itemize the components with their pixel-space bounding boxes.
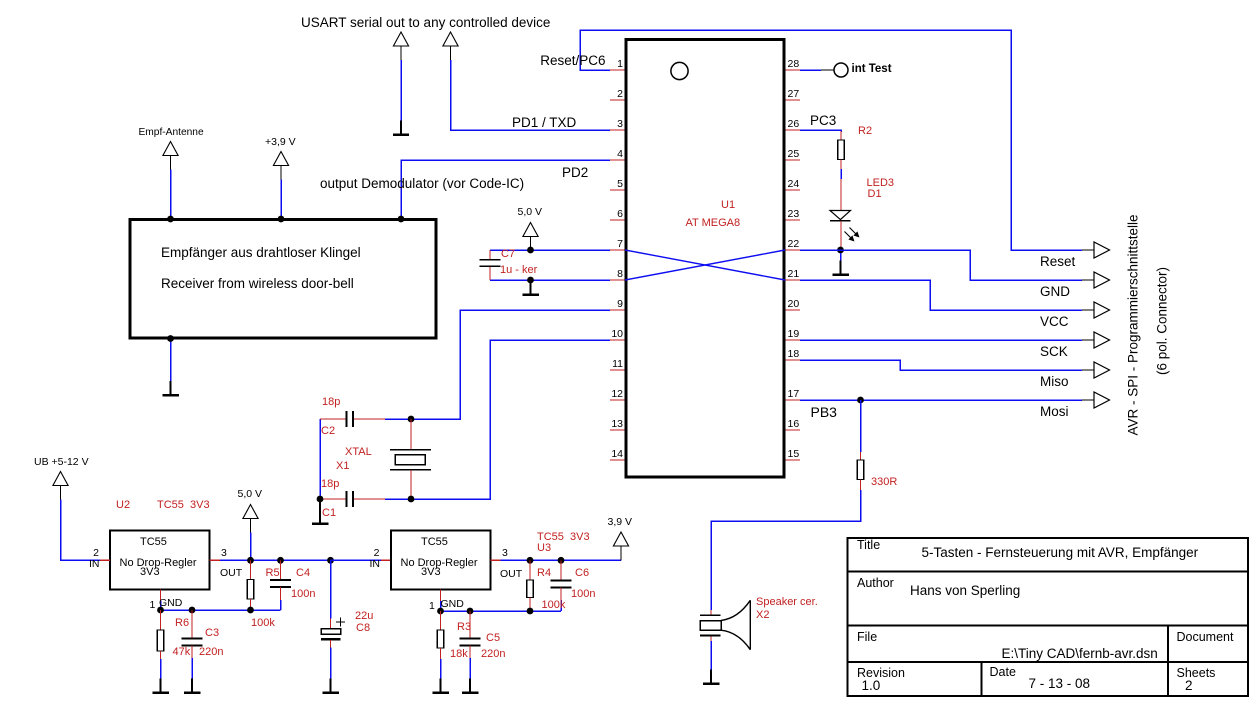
U1 pin 3 stub: [610, 129, 625, 131]
junction rail/C4: [277, 557, 284, 564]
junction 5V/pin7 row: [527, 247, 534, 254]
wire U3 gnd row: [441, 610, 562, 612]
capacitor C7 value: [500, 264, 537, 276]
connector lead Miso: [1082, 369, 1094, 371]
U3 pin1 labels: [429, 600, 435, 612]
U2 pin2 stub: [100, 559, 110, 561]
capacitor C6: [551, 581, 572, 588]
ground below LED: [832, 261, 849, 275]
ground below C8: [322, 679, 339, 693]
capacitor C4 label: [296, 567, 310, 579]
wire pin8-to-pin22 diagonal: [625, 250, 785, 280]
capacitor C3: [182, 639, 203, 646]
resistor R5 value: [251, 617, 275, 629]
connector arrow VCC: [1094, 302, 1110, 318]
U1 pin 23 number: [788, 208, 800, 220]
U1 pin 26 stub: [786, 129, 801, 131]
junction rail/C6: [558, 557, 565, 564]
ground below USART stub: [393, 121, 409, 135]
resistor R2 top stub: [840, 131, 842, 140]
U1 pin 23 stub: [786, 219, 801, 221]
int Test label: [852, 63, 892, 75]
title block Revision label: [857, 666, 905, 680]
LED D1 labels: [867, 177, 895, 189]
wire pin7-to-pin21 diagonal: [625, 250, 785, 280]
wire antenna to box: [170, 170, 172, 220]
crystal X1 top plate: [390, 449, 431, 451]
wire U3 out rail: [501, 559, 622, 561]
resistor R3 bottom stub: [440, 648, 442, 659]
capacitor C1 left stub: [320, 498, 346, 500]
resistor R3 value: [450, 648, 468, 660]
title block file text: [1002, 646, 1158, 661]
capacitor C7 label: [501, 248, 515, 260]
wire 330R to speaker: [711, 490, 861, 610]
resistor R3: [437, 630, 444, 648]
wire pin18 to Miso arrow: [800, 360, 1082, 370]
connector lead Mosi: [1082, 399, 1094, 401]
capacitor C1 value: [321, 478, 339, 490]
U1 pin 1 stub: [610, 69, 625, 71]
junction rail/R5: [247, 557, 254, 564]
U1 pin 9 stub: [610, 309, 625, 311]
regulator U2 refdes: [116, 499, 130, 511]
regulator U2 body: [110, 531, 210, 590]
wire UB to U2 IN: [61, 500, 101, 561]
wire R6 to ground: [160, 659, 162, 679]
speaker X2 body: [700, 621, 721, 631]
resistor 330R bottom stub: [860, 480, 862, 491]
capacitor C6 bottom stub: [560, 588, 562, 601]
LED D1 cathode bar: [830, 220, 851, 222]
capacitor C5 label: [486, 632, 500, 644]
IC U1 value label: [686, 217, 741, 229]
wire C6 to gnd row: [560, 600, 562, 611]
regulator U3 body: [391, 531, 491, 590]
ground below R6: [152, 679, 169, 693]
U1 pin 28 stub: [786, 69, 801, 71]
wire 5V to rail: [250, 533, 252, 561]
capacitor C8 top stub: [330, 619, 332, 629]
wire C5 to ground: [469, 658, 471, 679]
resistor R2 bottom stub: [840, 160, 842, 170]
junction box bottom: [167, 335, 174, 342]
junction rail/R4: [527, 557, 534, 564]
regulator U3 text: [421, 536, 448, 548]
U2 pin3 stub: [210, 559, 221, 561]
ground below receiver box: [162, 381, 179, 395]
U1 pin 12 number: [611, 388, 623, 400]
connector arrow GND: [1094, 272, 1110, 288]
U1 pin 10 number: [611, 328, 623, 340]
U2 pin3 labels: [221, 547, 227, 559]
wire rail to C8: [330, 560, 332, 618]
label PB3: [811, 404, 837, 420]
wire U3 GND stub to row: [440, 601, 442, 611]
resistor R6 bottom stub: [160, 651, 162, 659]
U1 pin 5 number: [617, 178, 623, 190]
power 5,0V symbol (pin7): [523, 223, 538, 251]
power 3,9V label: [608, 516, 633, 528]
ground below pin8 row: [522, 280, 539, 295]
capacitor C6 top stub: [560, 560, 562, 580]
regulator U2 type label: [157, 499, 210, 511]
U1 pin 22 stub: [786, 249, 801, 251]
power +3,9V symbol: [273, 152, 288, 180]
capacitor C8 label: [356, 622, 370, 634]
IC U1 refdes label: [721, 199, 735, 211]
ground below speaker: [703, 670, 720, 684]
wire pin17 to Mosi arrow: [800, 399, 1082, 401]
wire xtal top row to pin9: [385, 310, 610, 419]
U1 pin 8 stub: [610, 279, 625, 281]
net label VCC: [1040, 314, 1069, 329]
wire R2 to LED: [840, 169, 842, 179]
title block revision text: [862, 678, 881, 693]
junction C1/ground: [317, 496, 324, 503]
net label Reset: [1040, 254, 1075, 269]
U1 pin 8 number: [617, 268, 623, 280]
U1 pin 6 stub: [610, 219, 625, 221]
ground below C1: [312, 499, 329, 524]
USART arrow symbol (TXD): [443, 32, 458, 60]
wire U2 out rail: [220, 559, 381, 561]
title block sheets text: [1185, 678, 1193, 693]
ground below C5: [462, 679, 479, 693]
capacitor C3 bottom stub: [191, 646, 193, 659]
capacitor C4 value: [291, 588, 315, 600]
speaker X2 bottom plate: [700, 634, 721, 636]
capacitor C5 bottom stub: [469, 646, 471, 659]
wire pin21 net to VCC arrow: [800, 280, 1082, 310]
U2 pin1 GND stub: [160, 590, 162, 602]
connector lead VCC: [1082, 309, 1094, 311]
capacitor C1 label: [322, 507, 336, 519]
U1 pin 25 number: [788, 148, 800, 160]
junction xtal top: [408, 416, 415, 423]
resistor R4 label: [537, 567, 551, 579]
U1 pin 15 stub: [786, 459, 801, 461]
IC U1 pin-1 marker circle: [671, 62, 688, 79]
connector arrow Miso: [1094, 362, 1110, 378]
power 5,0V label (U2): [238, 488, 263, 500]
junction +3,9V/box: [278, 216, 285, 223]
U1 pin 27 number: [788, 88, 800, 100]
note output demodulator: [320, 176, 524, 191]
connector lead GND: [1082, 279, 1094, 281]
junction gnd row/C3: [189, 607, 196, 614]
resistor R3 top stub: [440, 611, 442, 630]
U1 pin 2 number: [617, 88, 623, 100]
junction LED/GND-net: [837, 247, 844, 254]
U3 pin3 labels: [502, 547, 508, 559]
capacitor C6 label: [575, 567, 589, 579]
wire C3 to ground: [191, 658, 193, 679]
U1 pin 17 number: [788, 388, 800, 400]
junction pin17/330R: [857, 397, 864, 404]
wire pin28: [800, 69, 821, 71]
junction xtal bottom: [408, 496, 415, 503]
capacitor C5 value: [481, 648, 505, 660]
U1 pin 4 number: [617, 148, 623, 160]
resistor R5: [247, 580, 254, 600]
title block Sheets label: [1177, 666, 1216, 680]
regulator U3 type label: [537, 531, 590, 543]
U1 pin 24 number: [788, 178, 800, 190]
U1 pin 22 number: [788, 238, 800, 250]
resistor R6: [157, 630, 164, 651]
wire speaker to ground: [710, 641, 712, 670]
crystal X1 label: [345, 446, 372, 458]
connector subtitle vertical: [1154, 267, 1169, 375]
ground below C3: [184, 679, 201, 693]
title block frame: [848, 538, 1249, 696]
title block Date label: [990, 665, 1016, 679]
wire pin17 junction down: [860, 400, 862, 452]
junction rail/C8: [327, 557, 334, 564]
label PD2: [562, 165, 588, 180]
capacitor C2: [347, 411, 354, 427]
U1 pin 16 stub: [786, 429, 801, 431]
U1 pin 21 number: [788, 268, 800, 280]
junction antenna/box: [167, 216, 174, 223]
receiver box text 2: [161, 276, 354, 291]
capacitor C2 left stub: [320, 418, 346, 420]
wire C8 to ground: [330, 648, 332, 679]
wire +3,9V to box: [280, 180, 282, 220]
ground below R3: [432, 679, 449, 693]
U2 pin1 labels: [150, 599, 156, 611]
label PC3: [810, 113, 836, 128]
title block Document label: [1177, 630, 1234, 644]
U1 pin 17 stub: [786, 399, 801, 401]
U1 pin 13 stub: [610, 429, 625, 431]
wire C4 to gnd row: [280, 600, 282, 610]
wire pin3 TXD: [451, 60, 611, 130]
title block Author label: [857, 576, 894, 590]
resistor R5 label: [266, 567, 280, 579]
U1 pin 13 number: [611, 418, 623, 430]
speaker X2 label: [756, 596, 818, 608]
wire rail C8 to U3 IN: [331, 559, 382, 561]
capacitor C2 right stub: [354, 418, 386, 420]
U1 pin 18 number: [788, 348, 800, 360]
power UB symbol: [53, 472, 68, 500]
U3 pin1 GND stub: [440, 590, 442, 602]
resistor R6 top stub: [160, 610, 162, 630]
capacitor C4 bottom stub: [280, 587, 282, 600]
wire below LED junction: [840, 253, 842, 261]
U3 pin2 stub: [381, 559, 391, 561]
speaker X2 top plate: [700, 614, 721, 616]
junction gnd row/C5: [467, 608, 474, 615]
U1 pin 19 stub: [786, 339, 801, 341]
junction U3 gnd/R3 row: [437, 608, 444, 615]
note USART: [301, 15, 550, 30]
title block date text: [1029, 676, 1091, 691]
wire pin1 Reset to connector: [580, 30, 1082, 250]
U1 pin 5 stub: [610, 189, 625, 191]
int Test lead: [821, 69, 834, 71]
capacitor C6 value: [571, 588, 595, 600]
int Test terminal circle: [834, 63, 848, 77]
capacitor C7 top stub: [489, 250, 491, 260]
resistor 330R top stub: [860, 452, 862, 460]
resistor R3 label: [457, 621, 471, 633]
junction gnd/pin8 row: [527, 277, 534, 284]
capacitor C8 bottom stub: [330, 640, 332, 648]
power 5,0V symbol (U2): [243, 505, 258, 533]
capacitor C8 top plate: [321, 629, 341, 635]
regulator U2 text: [140, 536, 167, 548]
receiver box text 1: [161, 245, 361, 260]
capacitor C8 plus sign: [336, 618, 345, 627]
U1 pin 19 number: [788, 328, 800, 340]
U2 pin2 labels: [93, 547, 99, 559]
capacitor C4: [270, 580, 291, 587]
resistor R4 top stub: [529, 560, 531, 580]
wire pin19 to SCK arrow: [800, 339, 1082, 341]
connector lead Reset: [1082, 249, 1094, 251]
U1 pin 7 number: [617, 238, 623, 250]
U1 pin 14 stub: [610, 459, 625, 461]
U1 pin 4 stub: [610, 159, 625, 161]
U1 pin 9 number: [617, 298, 623, 310]
U1 pin 18 stub: [786, 359, 801, 361]
wire USART stub: [400, 60, 402, 121]
U3 pin2 labels: [374, 547, 380, 559]
capacitor C5 top stub: [469, 611, 471, 639]
label Reset/PC6: [540, 53, 605, 68]
connector arrow Mosi: [1094, 392, 1110, 408]
capacitor C2 label: [321, 425, 335, 437]
title block File label: [857, 630, 877, 644]
U1 pin 1 number: [617, 58, 623, 70]
resistor R4: [527, 580, 534, 598]
U1 pin 20 number: [788, 298, 800, 310]
LED D1 anode stub: [840, 179, 842, 210]
wire pin8 row: [490, 279, 610, 281]
U1 pin 15 number: [788, 448, 800, 460]
connector arrow Reset: [1094, 242, 1110, 258]
U3 pin3 stub: [491, 559, 501, 561]
U1 pin 24 stub: [786, 189, 801, 191]
U1 pin 10 stub: [610, 339, 625, 341]
wire pin4 PD2 to box: [401, 160, 610, 219]
crystal X1 body: [395, 455, 425, 465]
power 5,0V label (pin7): [518, 206, 543, 218]
connector title vertical: [1125, 214, 1140, 435]
U1 pin 26 number: [788, 118, 800, 130]
U1 pin 11 number: [612, 358, 623, 370]
net label GND: [1040, 284, 1070, 299]
junction gnd row/R6: [157, 607, 164, 614]
U1 pin 27 stub: [786, 99, 801, 101]
U1 pin 28 number: [788, 58, 800, 70]
resistor R6 label: [175, 617, 189, 629]
capacitor C3 label: [205, 627, 219, 639]
capacitor C1 right stub: [354, 498, 386, 500]
resistor R4 bottom stub: [529, 598, 531, 612]
wire pin7 row: [490, 249, 610, 251]
resistor R2 label: [858, 125, 872, 137]
wire R3 to ground: [440, 659, 442, 679]
capacitor C7 bottom stub: [489, 267, 491, 281]
speaker X2 bottom stub: [710, 637, 712, 642]
resistor R4 value: [542, 599, 566, 611]
regulator U3 refdes: [537, 542, 551, 554]
U1 pin 16 number: [788, 418, 800, 430]
U1 pin 11 stub: [610, 369, 625, 371]
resistor R5 top stub: [250, 560, 252, 579]
U1 pin 20 stub: [786, 309, 801, 311]
crystal X1 top stub: [410, 419, 412, 450]
net label Miso: [1040, 374, 1069, 389]
wire box to ground: [170, 339, 172, 382]
wire 3,9V arrow to rail: [620, 546, 622, 560]
power +3,9V label: [265, 136, 296, 148]
IC U1 ATmega8 body: [626, 40, 784, 478]
junction gnd row/R4: [527, 608, 534, 615]
power UB label: [34, 456, 89, 468]
USART arrow symbol (stub): [393, 32, 408, 60]
U1 pin 14 number: [611, 448, 623, 460]
crystal X1 refdes: [336, 460, 349, 472]
LED D1 emission arrows: [845, 228, 859, 241]
connector lead SCK: [1082, 339, 1094, 341]
crystal X1 bottom plate: [390, 469, 431, 471]
connector arrow SCK: [1094, 332, 1110, 348]
wire pin22 net to GND arrow: [800, 250, 1082, 280]
resistor R6 value: [173, 646, 191, 658]
capacitor C3 top stub: [191, 610, 193, 638]
antenna symbol: [163, 142, 178, 170]
U1 pin 6 number: [617, 208, 623, 220]
U1 pin 12 stub: [610, 399, 625, 401]
speaker X2 top stub: [710, 610, 712, 615]
antenna label: [139, 127, 204, 138]
title block author text: [910, 583, 1020, 598]
title block Title label: [857, 538, 880, 552]
wire xtal left vertical: [319, 419, 321, 499]
U1 pin 3 number: [617, 118, 623, 130]
resistor R5 bottom stub: [250, 599, 252, 610]
net label Mosi: [1040, 404, 1069, 419]
wire U2 gnd row: [161, 609, 281, 611]
capacitor C8 bottom plate: [321, 638, 341, 640]
capacitor C2 value: [322, 396, 340, 408]
wire U2 GND stub to row: [160, 601, 162, 610]
U1 pin 21 stub: [786, 279, 801, 281]
resistor R2: [838, 140, 845, 160]
resistor 330R: [857, 460, 864, 480]
label PD1/TXD: [512, 115, 576, 130]
LED D1 triangle: [830, 211, 851, 220]
U1 pin 7 stub: [610, 249, 625, 251]
receiver box: [130, 220, 436, 339]
U1 pin 25 stub: [786, 159, 801, 161]
capacitor C1: [347, 491, 354, 507]
wire pin26 PC3: [800, 130, 841, 132]
power 3,9V symbol: [613, 532, 628, 560]
U1 pin 2 stub: [610, 99, 625, 101]
capacitor C3 value: [199, 646, 223, 658]
capacitor C4 top stub: [280, 560, 282, 580]
speaker X2 horn: [721, 600, 750, 649]
title block title text: [922, 545, 1199, 560]
resistor 330R value: [871, 476, 897, 488]
crystal X1 bottom stub: [410, 470, 412, 499]
